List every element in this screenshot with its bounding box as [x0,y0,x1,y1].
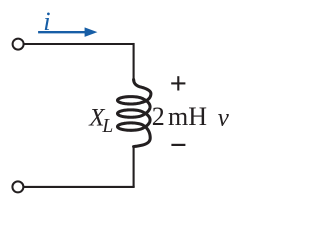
svg-text:v: v [218,105,230,132]
inductor L coil [118,80,151,147]
svg-text:2: 2 [152,102,165,131]
plus sign (v polarity) [171,76,185,90]
wire right vertical lower [133,146,135,187]
svg-text:XL: XL [88,105,113,137]
svg-text:i: i [43,6,50,36]
minus sign (v polarity) [171,144,185,146]
svg-text:mH: mH [168,102,207,131]
terminal top-left (open circle) [13,39,24,50]
terminal bottom-left (open circle) [12,181,23,192]
current arrow [38,27,97,37]
wire top horizontal [24,43,134,45]
wire right vertical upper [133,43,135,81]
wire bottom horizontal [24,186,135,188]
